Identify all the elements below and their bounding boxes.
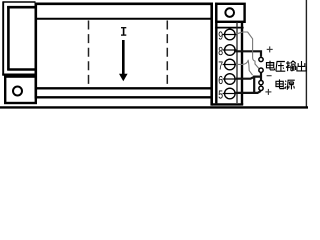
svg-text:8: 8 — [218, 45, 223, 58]
svg-text:5: 5 — [218, 89, 223, 102]
svg-text:9: 9 — [218, 30, 223, 43]
svg-text:7: 7 — [218, 60, 223, 73]
svg-text:6: 6 — [218, 74, 223, 87]
